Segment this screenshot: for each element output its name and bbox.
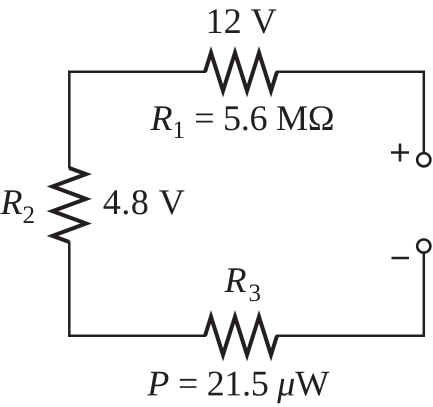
resistor R2	[53, 168, 87, 242]
wire left upper segment	[68, 71, 71, 169]
resistor R3	[205, 317, 277, 355]
terminal + circle	[417, 153, 430, 166]
label 12 V	[209, 9, 276, 33]
wire bottom-left segment	[68, 335, 206, 338]
wire top-left segment	[68, 71, 206, 74]
minus sign	[392, 257, 410, 260]
label R1 = 5.6 Mohm	[150, 106, 332, 138]
label R2	[0, 190, 33, 223]
wire right lower segment	[423, 253, 426, 337]
label R3	[224, 268, 260, 301]
resistor R1	[205, 53, 277, 91]
label 4.8 V	[104, 190, 185, 214]
wire top-right segment	[276, 71, 425, 74]
label P = 21.5 uW	[147, 372, 329, 404]
wire right upper segment	[423, 71, 426, 153]
terminal - circle	[417, 240, 430, 253]
plus sign	[391, 144, 409, 162]
wire left lower segment	[68, 242, 71, 338]
wire bottom-right segment	[276, 335, 425, 338]
